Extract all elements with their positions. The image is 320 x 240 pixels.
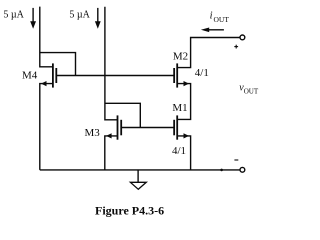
svg-text:i: i [210,11,213,22]
svg-text:4/1: 4/1 [195,67,209,79]
svg-text:M2: M2 [173,50,188,62]
svg-text:Figure P4.3-6: Figure P4.3-6 [95,203,164,217]
svg-text:OUT: OUT [244,88,259,96]
svg-text:OUT: OUT [214,15,230,24]
svg-text:5 µA: 5 µA [69,10,90,21]
svg-text:M3: M3 [85,127,101,139]
svg-text:4/1: 4/1 [172,145,186,157]
svg-text:5 µA: 5 µA [3,10,24,21]
svg-text:M4: M4 [22,70,38,82]
svg-text:M1: M1 [172,102,187,114]
